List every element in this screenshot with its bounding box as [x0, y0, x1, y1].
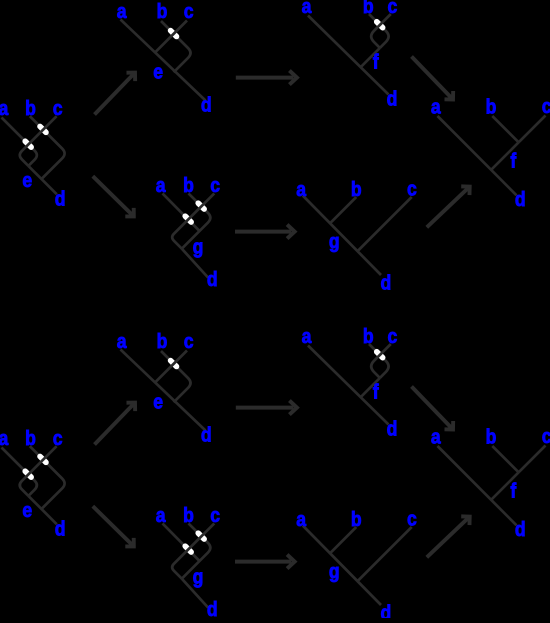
- svg-text:f: f: [510, 479, 517, 501]
- svg-text:b: b: [183, 174, 194, 196]
- svg-text:g: g: [329, 230, 340, 252]
- svg-text:a: a: [302, 0, 312, 17]
- svg-text:e: e: [153, 61, 163, 83]
- svg-text:a: a: [156, 504, 166, 526]
- svg-text:b: b: [25, 97, 36, 119]
- svg-text:d: d: [515, 518, 526, 540]
- svg-text:a: a: [117, 0, 127, 22]
- svg-text:d: d: [387, 87, 398, 109]
- svg-text:c: c: [407, 177, 417, 199]
- svg-text:a: a: [431, 425, 441, 447]
- svg-text:d: d: [207, 598, 218, 618]
- svg-text:c: c: [542, 95, 550, 117]
- svg-text:d: d: [381, 271, 392, 293]
- svg-text:d: d: [55, 517, 66, 539]
- svg-text:b: b: [157, 330, 168, 352]
- svg-text:b: b: [486, 425, 497, 447]
- svg-text:a: a: [0, 427, 9, 449]
- svg-text:c: c: [53, 427, 63, 449]
- svg-text:f: f: [373, 381, 380, 403]
- svg-text:c: c: [210, 504, 220, 526]
- svg-text:a: a: [0, 97, 9, 119]
- svg-text:d: d: [381, 601, 392, 618]
- svg-text:c: c: [53, 97, 63, 119]
- svg-text:d: d: [387, 417, 398, 439]
- svg-text:e: e: [22, 499, 32, 521]
- svg-text:d: d: [55, 187, 66, 209]
- svg-text:d: d: [207, 268, 218, 290]
- svg-text:b: b: [363, 325, 374, 347]
- svg-text:b: b: [157, 0, 168, 22]
- svg-text:c: c: [388, 0, 398, 17]
- svg-text:a: a: [431, 95, 441, 117]
- svg-text:b: b: [351, 508, 362, 530]
- svg-text:a: a: [117, 330, 127, 352]
- svg-text:d: d: [201, 423, 212, 445]
- svg-text:a: a: [296, 178, 306, 200]
- svg-text:b: b: [25, 427, 36, 449]
- svg-text:c: c: [210, 174, 220, 196]
- svg-text:c: c: [388, 325, 398, 347]
- svg-text:a: a: [156, 174, 166, 196]
- svg-text:g: g: [329, 560, 340, 582]
- svg-text:a: a: [296, 508, 306, 530]
- svg-text:d: d: [515, 188, 526, 210]
- svg-text:c: c: [407, 507, 417, 529]
- svg-text:g: g: [193, 565, 204, 587]
- svg-text:f: f: [510, 149, 517, 171]
- svg-text:b: b: [363, 0, 374, 17]
- svg-text:g: g: [193, 235, 204, 257]
- svg-text:c: c: [542, 425, 550, 447]
- svg-text:e: e: [22, 169, 32, 191]
- svg-text:e: e: [153, 391, 163, 413]
- svg-text:d: d: [201, 93, 212, 115]
- svg-text:a: a: [302, 325, 312, 347]
- svg-text:b: b: [486, 95, 497, 117]
- svg-text:c: c: [184, 330, 194, 352]
- svg-text:c: c: [184, 0, 194, 22]
- svg-text:b: b: [183, 504, 194, 526]
- svg-text:b: b: [351, 178, 362, 200]
- svg-text:f: f: [373, 51, 380, 73]
